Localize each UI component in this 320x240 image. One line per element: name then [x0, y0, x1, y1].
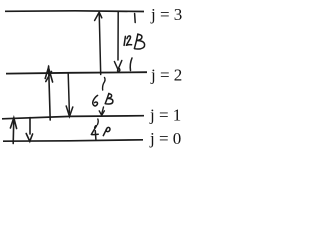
12B label: [124, 34, 145, 49]
6B upper tick: [103, 78, 106, 91]
level line j=3: [5, 10, 144, 13]
svg-text:j = 2: j = 2: [150, 66, 182, 85]
level line j=0: [3, 140, 143, 141]
up arrow j=2 to j=3: [95, 12, 102, 74]
level line j=2: [6, 72, 147, 73]
up arrow j=0 to j=1: [10, 118, 16, 144]
up arrow j=1 to j=2: [45, 66, 52, 120]
svg-text:j = 3: j = 3: [150, 5, 182, 24]
6B label: [93, 93, 113, 106]
2B upper tick: [97, 119, 100, 125]
svg-text:j = 0: j = 0: [149, 129, 181, 148]
12B lower tick: [130, 58, 132, 71]
down arrow j=1 to j=0: [26, 118, 32, 142]
2B label: [91, 126, 110, 140]
level line j=1: [2, 116, 144, 119]
down arrow j=3 to j=2: [114, 12, 121, 72]
6B down arrow: [99, 107, 104, 115]
12B upper tick: [134, 14, 137, 23]
svg-text:j = 1: j = 1: [149, 106, 181, 125]
down arrow j=2 to j=1: [66, 74, 73, 117]
